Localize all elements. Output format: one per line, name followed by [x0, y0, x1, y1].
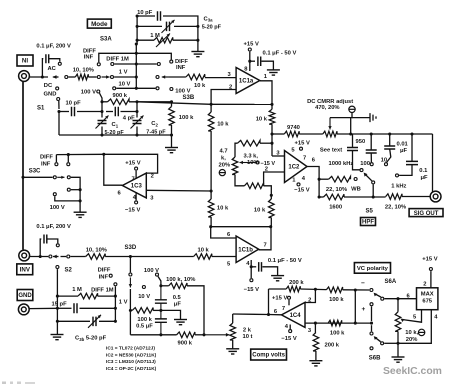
svg-text:4.7: 4.7: [220, 148, 228, 154]
output connector SIG OUT: [430, 191, 441, 202]
resistor 22 10% out: [386, 194, 402, 200]
svg-text:MAX: MAX: [421, 291, 434, 297]
switch S6A wiper: [375, 294, 381, 297]
contact S3C d: [67, 188, 70, 191]
wire IC1b output: [259, 227, 271, 250]
contact S4 1kHz: [396, 174, 399, 177]
potentiometer 10 k 20%: [395, 312, 401, 332]
svg-text:0.1 μF, 200 V: 0.1 μF, 200 V: [36, 44, 71, 50]
resistor 10 10% (INV): [86, 254, 106, 260]
op-amp IC1b: [236, 236, 259, 263]
svg-text:100 V: 100 V: [50, 205, 65, 211]
svg-text:NI: NI: [22, 58, 28, 65]
svg-text:100 k: 100 k: [179, 115, 194, 121]
node S2 pole: [39, 255, 42, 258]
wire C2 bus: [136, 102, 138, 118]
wire cap05a bottom: [160, 303, 162, 310]
resistor 22 10% WB: [329, 176, 351, 182]
terminal +15V IC3: [135, 167, 138, 170]
resistor 10 k (IC1b out): [269, 199, 275, 218]
contact S6B c: [370, 347, 373, 350]
contact S3C c: [67, 176, 70, 179]
wire 9740 row: [272, 133, 284, 135]
svg-text:0.1 μF, 200 V: 0.1 μF, 200 V: [36, 224, 71, 230]
capacitor 0.1uF 200V (INV): [44, 235, 47, 244]
svg-text:10 k,: 10 k,: [405, 330, 418, 336]
svg-text:C3b 5-20 pF: C3b 5-20 pF: [75, 336, 107, 342]
svg-text:15 pF: 15 pF: [52, 302, 68, 308]
wire IC2 output: [307, 167, 319, 198]
wire S6A to MAX: [384, 298, 416, 300]
node comp bottom: [159, 333, 162, 336]
ground (mode network): [191, 51, 204, 53]
wire mode mid branch: [137, 25, 162, 27]
wire cap01 bottom: [399, 165, 412, 176]
svg-text:10 k: 10 k: [198, 248, 210, 254]
wire bypass to ground: [262, 61, 274, 70]
trimmer capacitor C2 7-45pF arrow: [131, 116, 144, 129]
svg-text:S1: S1: [37, 106, 45, 112]
svg-text:VC polarity: VC polarity: [357, 266, 389, 272]
wire mode 1M branch: [137, 39, 154, 41]
svg-text:S3B: S3B: [183, 95, 195, 101]
contact S6B pole: [381, 342, 384, 345]
switch S4 pole: [360, 169, 363, 172]
input connector NI: [19, 71, 30, 82]
wire out row b: [344, 196, 386, 198]
svg-text:1 M: 1 M: [72, 287, 82, 293]
svg-text:100 k: 100 k: [329, 297, 344, 303]
wire 200k gnd branch: [314, 323, 316, 332]
wire IC1b pin6: [211, 227, 236, 238]
wire chain to IC1b node: [210, 217, 212, 227]
svg-text:1C2: 1C2: [288, 165, 300, 171]
node 900k left: [100, 100, 103, 103]
svg-text:+15 V: +15 V: [295, 141, 310, 147]
trimmer 3.3k wiper: [240, 162, 256, 164]
node 15pF right: [114, 307, 117, 310]
ground (IC1b bypass): [271, 275, 284, 277]
switch S4 wiper: [365, 174, 372, 181]
wire INV cap branch: [40, 239, 41, 257]
svg-text:μF: μF: [174, 302, 182, 308]
wire IC2 pin2: [264, 172, 285, 186]
svg-text:IC4 = OP-2C (AD711K): IC4 = OP-2C (AD711K): [106, 366, 157, 372]
svg-text:200 k: 200 k: [289, 280, 304, 286]
wire IC3 output: [104, 154, 123, 185]
wire C3b row right: [99, 320, 115, 322]
label INV: [17, 264, 33, 275]
wire cap05a top: [160, 286, 162, 300]
wire cap to AC contact: [49, 59, 60, 62]
trimmer capacitor C3b arrow: [88, 315, 101, 328]
wire S1 GND contact down: [58, 101, 60, 109]
contact S3A DIFF1M: [111, 63, 114, 66]
svg-text:20%: 20%: [219, 162, 231, 168]
wire IC1b pin4: [250, 260, 252, 278]
svg-text:2 k: 2 k: [243, 328, 252, 334]
ground (comp): [174, 319, 187, 321]
wire cap05b: [160, 310, 162, 319]
voltage reference MAX 675: [417, 288, 438, 310]
contact comp 10V: [142, 286, 145, 289]
svg-text:10 k: 10 k: [194, 83, 206, 89]
svg-text:10 k: 10 k: [217, 206, 229, 212]
svg-text:SIG OUT: SIG OUT: [414, 211, 439, 217]
contact S2 b: [67, 255, 70, 258]
wire gain bottom right: [264, 186, 272, 199]
wire INV to S2: [30, 256, 49, 258]
wire bus to SIG OUT: [432, 134, 434, 192]
svg-text:S3C: S3C: [29, 169, 41, 175]
wire out row a: [319, 196, 323, 198]
svg-text:S2: S2: [65, 267, 73, 273]
svg-text:10, 10%: 10, 10%: [73, 67, 94, 73]
svg-text:C2: C2: [151, 121, 158, 127]
wire 1M row right: [98, 295, 116, 297]
potentiometer 2 k 10 t: [230, 323, 236, 340]
terminal -15V IC3: [135, 201, 138, 204]
input connector GND: [18, 304, 29, 315]
ground (10k pot): [392, 356, 405, 358]
trimmer capacitor C1 5-20pF arrow: [96, 116, 109, 129]
wire mode top branch: [137, 15, 155, 17]
wire bottom comp row: [130, 334, 176, 336]
wire IC4 node to apex: [269, 314, 282, 316]
wire to 10k input resistor: [169, 76, 186, 78]
svg-text:IC2 = NE530 (AD711K): IC2 = NE530 (AD711K): [106, 352, 157, 358]
wire 200k row: [269, 288, 287, 290]
wire 10pF row: [59, 111, 69, 113]
op-amp IC2: [285, 151, 308, 183]
wire shield to S3C: [23, 176, 53, 178]
wire fb b down: [354, 290, 356, 323]
wire gain pot bottom: [235, 175, 244, 186]
svg-text:1C4: 1C4: [290, 313, 302, 319]
ground (S3C): [74, 211, 87, 213]
node bus d: [410, 132, 413, 135]
wire cap001 bottom: [387, 149, 391, 162]
svg-text:10 k: 10 k: [254, 208, 266, 214]
contact S3C pole: [53, 176, 56, 179]
wire chain upper leads: [210, 104, 212, 112]
contact S3B 10V a: [113, 87, 116, 90]
svg-text:INV: INV: [20, 267, 31, 274]
node mode a: [136, 14, 139, 17]
wire S6B plus down: [371, 306, 373, 321]
svg-text:+15 V: +15 V: [422, 257, 437, 263]
wire IC4 node up: [268, 289, 270, 315]
chassis ground (CMRR): [370, 113, 376, 122]
node C1 top: [100, 110, 103, 113]
node 10pF left: [57, 110, 60, 113]
svg-text:GND: GND: [18, 293, 32, 299]
svg-text:1000 kHz: 1000 kHz: [329, 161, 354, 167]
node S3A bus top: [135, 42, 138, 45]
switch S6B wiper: [375, 337, 381, 341]
svg-text:1C1a: 1C1a: [239, 79, 254, 85]
wire MAX pin2: [430, 271, 432, 288]
ground (2k pot): [226, 348, 239, 350]
wire S3A bus: [135, 44, 137, 88]
contact 100V left: [97, 90, 100, 93]
wire to S3D: [105, 256, 193, 258]
svg-text:22, 10%: 22, 10%: [326, 187, 347, 193]
svg-text:INF: INF: [176, 65, 186, 71]
svg-text:7-45 pF: 7-45 pF: [146, 130, 166, 136]
wire S3A DIFF1M to bus: [114, 63, 136, 65]
contact S2 a: [49, 255, 52, 258]
svg-text:1 M: 1 M: [150, 33, 160, 39]
terminal +15V MAX: [429, 268, 432, 271]
svg-text:DIFF: DIFF: [98, 268, 111, 274]
wire S4 to out row: [372, 185, 374, 198]
wire 100k to S6A: [343, 289, 370, 291]
wire C3b row left: [57, 320, 90, 322]
svg-text:900 k: 900 k: [178, 341, 193, 347]
node C1 rail: [100, 133, 103, 136]
node 10k chain top: [210, 103, 213, 106]
svg-text:DC CMRR adjust: DC CMRR adjust: [307, 99, 353, 105]
wire S2 mid: [61, 256, 67, 258]
resistor 10 k (IC1a out): [269, 109, 275, 124]
node IC1b bypass: [250, 265, 253, 268]
node IC4 in: [267, 313, 270, 316]
wire WB row: [319, 178, 329, 180]
svg-text:7: 7: [282, 306, 285, 312]
node bus a: [349, 132, 352, 135]
trimmer resistor 470 CMRR: [323, 131, 337, 137]
svg-text:7: 7: [132, 176, 135, 182]
svg-text:+15 V: +15 V: [125, 161, 140, 167]
terminal -15V 3.3k: [256, 161, 259, 164]
wire IC4 supply+: [288, 300, 290, 305]
svg-text:SeekIC.com: SeekIC.com: [383, 366, 442, 377]
wire mode left bus: [136, 16, 138, 44]
node pin3 b: [354, 322, 357, 325]
node fb a: [314, 288, 317, 291]
wire comp gnd branch: [161, 310, 181, 319]
svg-text:10%: 10%: [247, 160, 259, 166]
node mode b: [136, 25, 139, 28]
svg-text:−15 V: −15 V: [281, 336, 296, 342]
wire S2 to 10 resistor: [70, 256, 85, 258]
svg-text:GND: GND: [44, 92, 57, 98]
capacitor 0.1uF 200V (NI): [46, 54, 49, 63]
node pot top (10k): [396, 297, 399, 300]
ground (attenuator): [165, 147, 178, 149]
wire pot 10k top: [397, 299, 399, 312]
wire S3A tie bar: [99, 53, 172, 62]
svg-text:INF: INF: [84, 55, 94, 61]
wire cap01 top: [411, 134, 413, 161]
wire IC1a pin2 input: [211, 90, 236, 105]
wire 100k10 row: [161, 285, 169, 287]
resistor 10 k (chain upper): [208, 112, 214, 131]
resistor 900 k (comp): [177, 332, 195, 338]
node pin3 a: [314, 322, 317, 325]
wire IC4 pin2: [305, 290, 315, 303]
contact S1 DC: [56, 87, 59, 90]
node 1M right: [114, 295, 117, 298]
svg-text:S6A: S6A: [385, 279, 397, 285]
wire cap100 top: [370, 134, 372, 150]
wire IC4 supply-: [289, 325, 291, 330]
resistor 100 k (attenuator): [169, 107, 175, 126]
wire 15pF row right: [80, 307, 116, 309]
wire IC1a supply: [249, 52, 251, 71]
op-amp IC1a: [236, 68, 260, 94]
trimmer capacitor C3b: [93, 317, 96, 327]
wire S3D bus down: [129, 257, 131, 273]
wire pot bottom to gnd: [397, 343, 399, 357]
node pot wiper: [202, 333, 205, 336]
node IC3 out: [102, 153, 105, 156]
wire 100V contact stub: [100, 93, 103, 102]
node 100k top: [170, 100, 173, 103]
svg-text:900 k: 900 k: [113, 93, 128, 99]
contact comp 100V: [156, 273, 159, 276]
op-amp IC4: [282, 302, 306, 327]
svg-text:0.1 μF - 50 V: 0.1 μF - 50 V: [263, 51, 297, 57]
ground (200k): [309, 360, 322, 362]
svg-text:10 t: 10 t: [243, 334, 253, 340]
svg-text:1C3: 1C3: [131, 184, 143, 190]
wire MAX pin4: [398, 310, 431, 344]
resistor 100 k (upper): [326, 287, 342, 293]
contact S6B plus: [370, 303, 373, 306]
node 1M left: [56, 295, 59, 298]
wire CMRR screw lead: [330, 113, 352, 118]
terminal -15V IC2: [297, 183, 300, 186]
node S3C bus: [67, 153, 70, 156]
contact S1 GND: [57, 98, 60, 101]
svg-text:2: 2: [265, 166, 268, 172]
node S3C d: [79, 188, 82, 191]
wire 15pF row left: [57, 307, 71, 309]
contact S2 DIFF INF: [109, 274, 112, 277]
svg-text:μF: μF: [421, 175, 429, 181]
trimmer capacitor C3a: [167, 22, 170, 32]
wire 1M row left: [57, 295, 78, 297]
switch S6A wiper arrow: [374, 293, 378, 297]
pot 10k wiper: [402, 310, 422, 323]
svg-text:S6B: S6B: [369, 356, 381, 362]
label HPF: [361, 218, 376, 226]
contact S4 100: [370, 163, 373, 166]
resistor 9740: [284, 131, 299, 137]
svg-text:Mode: Mode: [91, 21, 108, 28]
svg-text:5-20 pF: 5-20 pF: [105, 130, 125, 136]
wire IC2 pin3: [272, 155, 285, 157]
wire S6B tie down: [371, 325, 373, 331]
switch S2 wiper arrow: [53, 255, 57, 259]
wire resistor to S3A contact: [88, 76, 96, 78]
resistor 200 k (feedback): [286, 286, 300, 292]
svg-text:22, 10%: 22, 10%: [385, 204, 406, 210]
resistor 100 k (comp): [132, 308, 153, 314]
wire S2 wiper: [53, 256, 59, 258]
node C2 top: [135, 100, 138, 103]
contact S6B b: [370, 332, 373, 335]
resistor 1 M (INV): [78, 293, 98, 299]
trimmer capacitor C1 5-20pF: [98, 121, 107, 124]
wire S1 gnd bus down: [58, 112, 60, 136]
node S3D: [129, 255, 132, 258]
node IC2 out WB: [318, 178, 321, 181]
trimmer screw (CMRR): [349, 106, 355, 112]
wire C2 bottom: [136, 127, 138, 136]
wire pot bottom lead: [397, 331, 399, 343]
node 100k rail: [170, 133, 173, 136]
wire bottom rail: [59, 134, 172, 136]
svg-text:10 V: 10 V: [138, 294, 150, 300]
svg-text:−15 V: −15 V: [125, 208, 140, 214]
wire AC coupling branch: [41, 59, 44, 77]
wire cap001 top: [389, 134, 391, 146]
node S4 out: [372, 195, 375, 198]
wire IC3 supply-: [135, 192, 137, 200]
svg-text:100 k: 100 k: [137, 317, 152, 323]
contact S4 wiper base: [372, 181, 375, 184]
wire C1 bus: [101, 102, 103, 118]
wire 4pF right: [121, 111, 138, 113]
svg-text:2: 2: [229, 84, 232, 90]
node C3b right: [114, 320, 117, 323]
wire S3C c to node: [71, 177, 80, 212]
trimmer screw (10k): [418, 329, 424, 335]
svg-text:−15 V: −15 V: [244, 287, 259, 293]
label NI: [17, 55, 33, 66]
node comp bus lower: [129, 309, 132, 312]
svg-text:+15 V: +15 V: [272, 295, 287, 301]
svg-text:0.01: 0.01: [397, 142, 409, 148]
op-amp IC3: [122, 173, 146, 198]
wire 100k top: [171, 102, 173, 107]
switch S4 wiper arrow: [364, 173, 368, 177]
resistor 1 M (mode): [154, 37, 173, 43]
contact S6A pole: [381, 297, 384, 300]
svg-text:IC1 = TL072 (AD712J): IC1 = TL072 (AD712J): [106, 346, 155, 352]
svg-text:S5: S5: [366, 209, 374, 215]
svg-text:WB: WB: [351, 187, 361, 193]
node bus b: [370, 132, 373, 135]
capacitor 4 pF: [115, 107, 118, 116]
svg-text:1 V: 1 V: [119, 299, 128, 305]
svg-text:AC: AC: [48, 66, 57, 72]
wire chain lower top: [210, 191, 212, 199]
svg-text:IC3 = LM310 (AD711J): IC3 = LM310 (AD711J): [106, 359, 156, 365]
switch S3D wiper: [129, 278, 131, 288]
resistor gain top: [238, 140, 261, 146]
svg-text:2: 2: [308, 297, 311, 303]
node mode c: [136, 39, 139, 42]
wire 950 to S4 wiper: [353, 165, 360, 169]
contact S3A right b: [157, 63, 160, 66]
wire IC2 pin3 branch: [271, 134, 273, 156]
wire S2 bus to ground: [56, 321, 58, 334]
node S1 pole: [41, 75, 44, 78]
resistor 10 k (NI input): [186, 74, 205, 80]
wire pot top: [232, 314, 234, 323]
contact S2 AC: [56, 244, 59, 247]
svg-text:5-20 pF: 5-20 pF: [202, 25, 222, 31]
node IC1b in: [209, 225, 212, 228]
svg-text:7: 7: [264, 243, 267, 249]
wire 10k IC1b to row: [270, 218, 272, 227]
svg-text:100 k: 100 k: [330, 330, 345, 336]
contact comp a: [129, 273, 132, 276]
